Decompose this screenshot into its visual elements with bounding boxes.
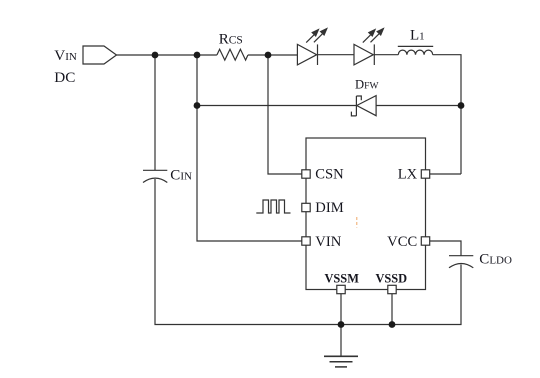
- wire node A down to CIN: [154, 55, 156, 170]
- DIM square wave symbol: [256, 200, 290, 213]
- junction ground VSSD: [389, 321, 396, 328]
- capacitor CLDO: [449, 256, 473, 268]
- resistor RCS: [217, 49, 248, 60]
- svg-text:L1: L1: [410, 28, 425, 44]
- LED D1: [297, 29, 326, 65]
- wire VSSM pin to bottom rail: [340, 294, 342, 325]
- svg-text:VIN: VIN: [54, 47, 77, 64]
- cursor artifact orange dash: [356, 217, 358, 228]
- wire DFW row left segment: [197, 55, 356, 106]
- wire bottom rail middle: [341, 324, 392, 326]
- svg-text:LX: LX: [398, 167, 418, 183]
- wire node A to node B: [155, 54, 197, 56]
- svg-text:RCS: RCS: [219, 31, 243, 47]
- junction node A: [152, 52, 159, 59]
- wire CLDO to VCC pin: [430, 241, 462, 256]
- pin VCC square: [421, 237, 429, 245]
- wire DFW row right segment: [376, 105, 461, 107]
- diode DFW schottky: [351, 96, 376, 116]
- wire CIN to bottom rail: [155, 179, 341, 325]
- wire node C to LED1: [268, 54, 297, 56]
- wire LED1 to LED2: [318, 54, 355, 56]
- pin VSSD square: [388, 285, 396, 293]
- wire LX pin to right vertical: [430, 173, 462, 175]
- wire node B to resistor: [197, 54, 217, 56]
- pin CSN square: [302, 170, 310, 178]
- wire bottom rail right and up to CLDO: [392, 265, 461, 325]
- svg-text:VIN: VIN: [315, 234, 341, 250]
- svg-text:VCC: VCC: [387, 234, 417, 250]
- svg-text:CLDO: CLDO: [479, 251, 512, 267]
- svg-text:VSSM: VSSM: [324, 271, 359, 285]
- wire resistor to node C: [248, 54, 268, 56]
- svg-text:DFW: DFW: [355, 78, 379, 92]
- svg-text:DC: DC: [54, 69, 75, 86]
- junction DFW left: [194, 102, 201, 109]
- IC U1 body: [306, 138, 426, 290]
- inductor L1 overbar: [398, 45, 433, 47]
- junction node C: [265, 52, 272, 59]
- svg-text:DIM: DIM: [315, 200, 343, 216]
- pin LX square: [421, 170, 429, 178]
- svg-text:CSN: CSN: [315, 167, 344, 183]
- svg-text:VSSD: VSSD: [375, 271, 407, 285]
- wire node B down to VIN pin: [197, 106, 302, 242]
- wire inductor to top-right corner: [433, 55, 461, 106]
- LED D2: [354, 29, 383, 65]
- pin DIM square: [302, 203, 310, 211]
- junction DFW right: [458, 102, 465, 109]
- wire connector to node A: [117, 54, 156, 56]
- inductor L1: [398, 50, 432, 55]
- junction node B: [194, 52, 201, 59]
- pin VSSM square: [337, 285, 345, 293]
- wire right vertical to LX row: [460, 106, 462, 175]
- wire node C down to CSN pin: [268, 55, 302, 174]
- wire LED2 to inductor: [374, 54, 398, 56]
- svg-text:CIN: CIN: [170, 168, 192, 184]
- connector VIN DC input plug: [83, 46, 117, 64]
- capacitor CIN: [143, 170, 167, 182]
- junction ground VSSM: [338, 321, 345, 328]
- pin VIN square: [302, 237, 310, 245]
- ground: [324, 325, 358, 367]
- wire VSSD pin to bottom rail: [391, 294, 393, 325]
